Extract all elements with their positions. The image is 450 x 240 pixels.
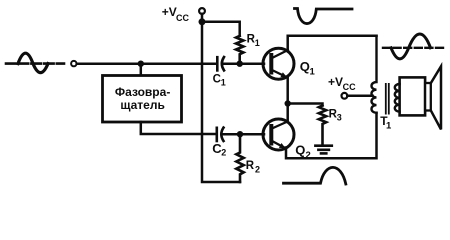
input terminal bbox=[71, 61, 76, 66]
output waveform above top rail bbox=[295, 9, 353, 24]
Vcc feed wire down left side to bottom rail and R2 bbox=[202, 22, 240, 182]
svg-text:3: 3 bbox=[337, 112, 342, 122]
input dashed baseline bbox=[6, 62, 64, 65]
svg-text:Фазовра-: Фазовра- bbox=[115, 85, 170, 99]
+Vcc top label bbox=[162, 5, 190, 23]
wire Vcc to transformer primary bbox=[347, 95, 372, 98]
transistor Q2 bbox=[263, 119, 294, 150]
svg-text:Q: Q bbox=[300, 59, 310, 74]
svg-text:C: C bbox=[213, 73, 221, 85]
resistor R1 bbox=[236, 36, 243, 64]
svg-text:щатель: щатель bbox=[120, 98, 165, 112]
label R3 bbox=[329, 109, 342, 123]
Q2 emitter wire and bottom rail to transformer bbox=[286, 113, 377, 159]
emitter junction dot bbox=[285, 100, 291, 106]
Q1 emitter wire down to junction bbox=[286, 76, 289, 103]
+Vcc middle terminal bbox=[342, 93, 348, 99]
wire tap down to phase shifter bbox=[140, 64, 143, 76]
capacitor C2 bbox=[217, 128, 224, 141]
svg-text:1: 1 bbox=[386, 121, 392, 132]
svg-text:+V: +V bbox=[162, 5, 177, 19]
label C2 bbox=[212, 141, 226, 157]
svg-text:1: 1 bbox=[310, 67, 316, 78]
junction dot at phase-shifter tap bbox=[138, 61, 144, 67]
transformer T1 secondary winding bbox=[395, 84, 400, 112]
junction dot C2-R2-base bbox=[237, 131, 243, 137]
wire phase shifter output to C2 bbox=[141, 122, 216, 134]
ground bbox=[315, 146, 331, 154]
junction dot below +Vcc terminal bbox=[199, 14, 206, 25]
speaker bbox=[400, 66, 441, 129]
+Vcc middle label bbox=[328, 75, 356, 92]
phase shifter box bbox=[103, 76, 182, 123]
svg-text:1: 1 bbox=[255, 38, 260, 48]
wire input to C1 bbox=[77, 62, 216, 65]
transformer T1 primary winding bbox=[372, 36, 377, 113]
Q2 collector wire up to junction bbox=[286, 104, 289, 123]
svg-text:CC: CC bbox=[176, 13, 189, 23]
wire C1 to Q1 base bbox=[223, 62, 264, 65]
output waveform bottom bbox=[284, 167, 346, 184]
wire C2 to Q2 base bbox=[222, 133, 264, 136]
label Q1 bbox=[300, 59, 316, 78]
svg-text:2: 2 bbox=[255, 165, 260, 175]
transistor Q1 bbox=[263, 48, 294, 79]
transformer core bbox=[385, 83, 390, 115]
svg-text:R: R bbox=[246, 160, 255, 172]
resistor R3 bbox=[319, 106, 326, 145]
output waveform top-right sine bbox=[391, 34, 431, 59]
label R1 bbox=[247, 33, 260, 48]
svg-text:2: 2 bbox=[221, 147, 226, 157]
svg-text:+V: +V bbox=[328, 75, 343, 89]
label Q2 bbox=[295, 143, 310, 162]
wire junction to R3 bbox=[288, 104, 323, 106]
input sine wave bbox=[18, 53, 48, 72]
label R2 bbox=[246, 160, 260, 175]
resistor R2 bbox=[236, 134, 243, 182]
svg-text:Q: Q bbox=[295, 143, 305, 158]
phase shifter label bbox=[115, 85, 170, 112]
Vcc wire to R1 bbox=[202, 22, 240, 36]
label C1 bbox=[213, 73, 226, 87]
svg-text:1: 1 bbox=[221, 77, 226, 87]
svg-text:CC: CC bbox=[343, 82, 356, 92]
label T1 bbox=[380, 114, 392, 132]
+Vcc top terminal bbox=[199, 8, 205, 14]
output waveform top-right dashed baseline bbox=[383, 47, 444, 49]
capacitor C1 bbox=[217, 57, 224, 70]
junction dot R1-C1-base bbox=[237, 61, 243, 67]
Q1 collector wire and top rail bbox=[288, 36, 377, 51]
